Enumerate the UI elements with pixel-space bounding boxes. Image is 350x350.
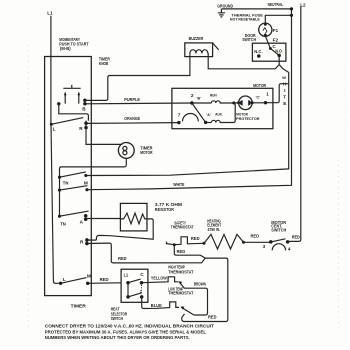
svg-text:E: E: [283, 101, 286, 106]
svg-text:RUN: RUN: [210, 94, 217, 98]
svg-text:YELLOW: YELLOW: [151, 276, 167, 281]
svg-text:C: C: [140, 272, 144, 277]
svg-text:L1: L1: [124, 273, 129, 278]
svg-text:RED: RED: [191, 236, 200, 241]
svg-text:L1: L1: [47, 10, 53, 15]
svg-text:GROUND: GROUND: [217, 3, 233, 8]
svg-text:ORANGE: ORANGE: [124, 116, 140, 121]
svg-text:THERMOSTAT: THERMOSTAT: [168, 291, 193, 296]
svg-text:'C': 'C': [256, 96, 260, 100]
svg-text:KNOB: KNOB: [99, 61, 109, 66]
svg-text:4750 W.: 4750 W.: [208, 227, 221, 232]
svg-text:NUMBERS WHEN WRITING ABOUT THI: NUMBERS WHEN WRITING ABOUT THIS DRYER OR…: [45, 335, 190, 340]
svg-text:NOT RESETABLE: NOT RESETABLE: [230, 17, 260, 22]
svg-text:I: I: [284, 88, 285, 93]
svg-text:N.O.: N.O.: [275, 49, 283, 54]
svg-text:4: 4: [288, 247, 291, 252]
svg-text:W: W: [282, 75, 286, 80]
svg-text:RED: RED: [100, 277, 110, 282]
svg-text:BLUE: BLUE: [151, 303, 162, 308]
svg-text:RED: RED: [118, 256, 127, 261]
svg-text:RED: RED: [251, 234, 260, 239]
svg-text:NEUTRAL: NEUTRAL: [268, 2, 284, 7]
svg-text:MOTOR: MOTOR: [253, 83, 266, 88]
svg-text:CONNECT DRYER TO 120/240 V.A.C: CONNECT DRYER TO 120/240 V.A.C.,60 HZ. I…: [45, 324, 215, 329]
svg-text:N.C.: N.C.: [254, 49, 262, 54]
svg-text:TIMER: TIMER: [71, 304, 87, 309]
svg-text:7: 7: [178, 113, 181, 118]
svg-text:BROWN: BROWN: [194, 282, 207, 287]
svg-text:PURPLE: PURPLE: [124, 97, 140, 102]
svg-text:'A': 'A': [206, 113, 210, 117]
svg-text:PROTECTED BY MAXIMUM 30 A. FUS: PROTECTED BY MAXIMUM 30 A. FUSES. ALWAYS…: [45, 329, 206, 334]
svg-text:THERMOSTAT: THERMOSTAT: [171, 225, 194, 230]
svg-text:TN: TN: [60, 222, 66, 227]
svg-text:RED: RED: [208, 315, 217, 320]
svg-text:RED: RED: [177, 249, 186, 254]
svg-text:MOTOR: MOTOR: [140, 150, 153, 155]
svg-text:'B': 'B': [197, 97, 201, 101]
svg-text:3: 3: [263, 244, 266, 249]
svg-text:BUZZER: BUZZER: [189, 36, 204, 41]
svg-text:1: 1: [140, 290, 142, 294]
svg-text:(M-B): (M-B): [60, 46, 71, 51]
svg-text:TN: TN: [63, 181, 69, 186]
svg-text:B: B: [82, 106, 86, 111]
svg-text:SWITCH: SWITCH: [271, 228, 286, 233]
svg-text:RESISTOR: RESISTOR: [155, 207, 174, 212]
svg-text:SWITCH: SWITCH: [111, 316, 124, 321]
svg-text:M: M: [87, 274, 91, 279]
svg-text:F1: F1: [273, 28, 279, 33]
svg-text:T: T: [283, 94, 286, 99]
svg-text:PROTECTOR: PROTECTOR: [236, 117, 260, 121]
svg-text:L: L: [53, 126, 56, 131]
svg-text:THERMOSTAT: THERMOSTAT: [168, 269, 193, 274]
svg-text:F2: F2: [273, 38, 279, 43]
svg-text:M: M: [84, 181, 88, 186]
svg-text:AUX.: AUX.: [215, 113, 223, 117]
svg-text:WHITE: WHITE: [173, 182, 184, 187]
svg-text:SWITCH: SWITCH: [242, 37, 256, 42]
svg-text:1: 1: [266, 92, 269, 97]
svg-text:L2: L2: [300, 3, 306, 8]
svg-text:L: L: [63, 277, 66, 282]
svg-text:RED: RED: [292, 234, 301, 239]
svg-text:2: 2: [191, 93, 194, 98]
svg-text:R: R: [79, 126, 83, 131]
